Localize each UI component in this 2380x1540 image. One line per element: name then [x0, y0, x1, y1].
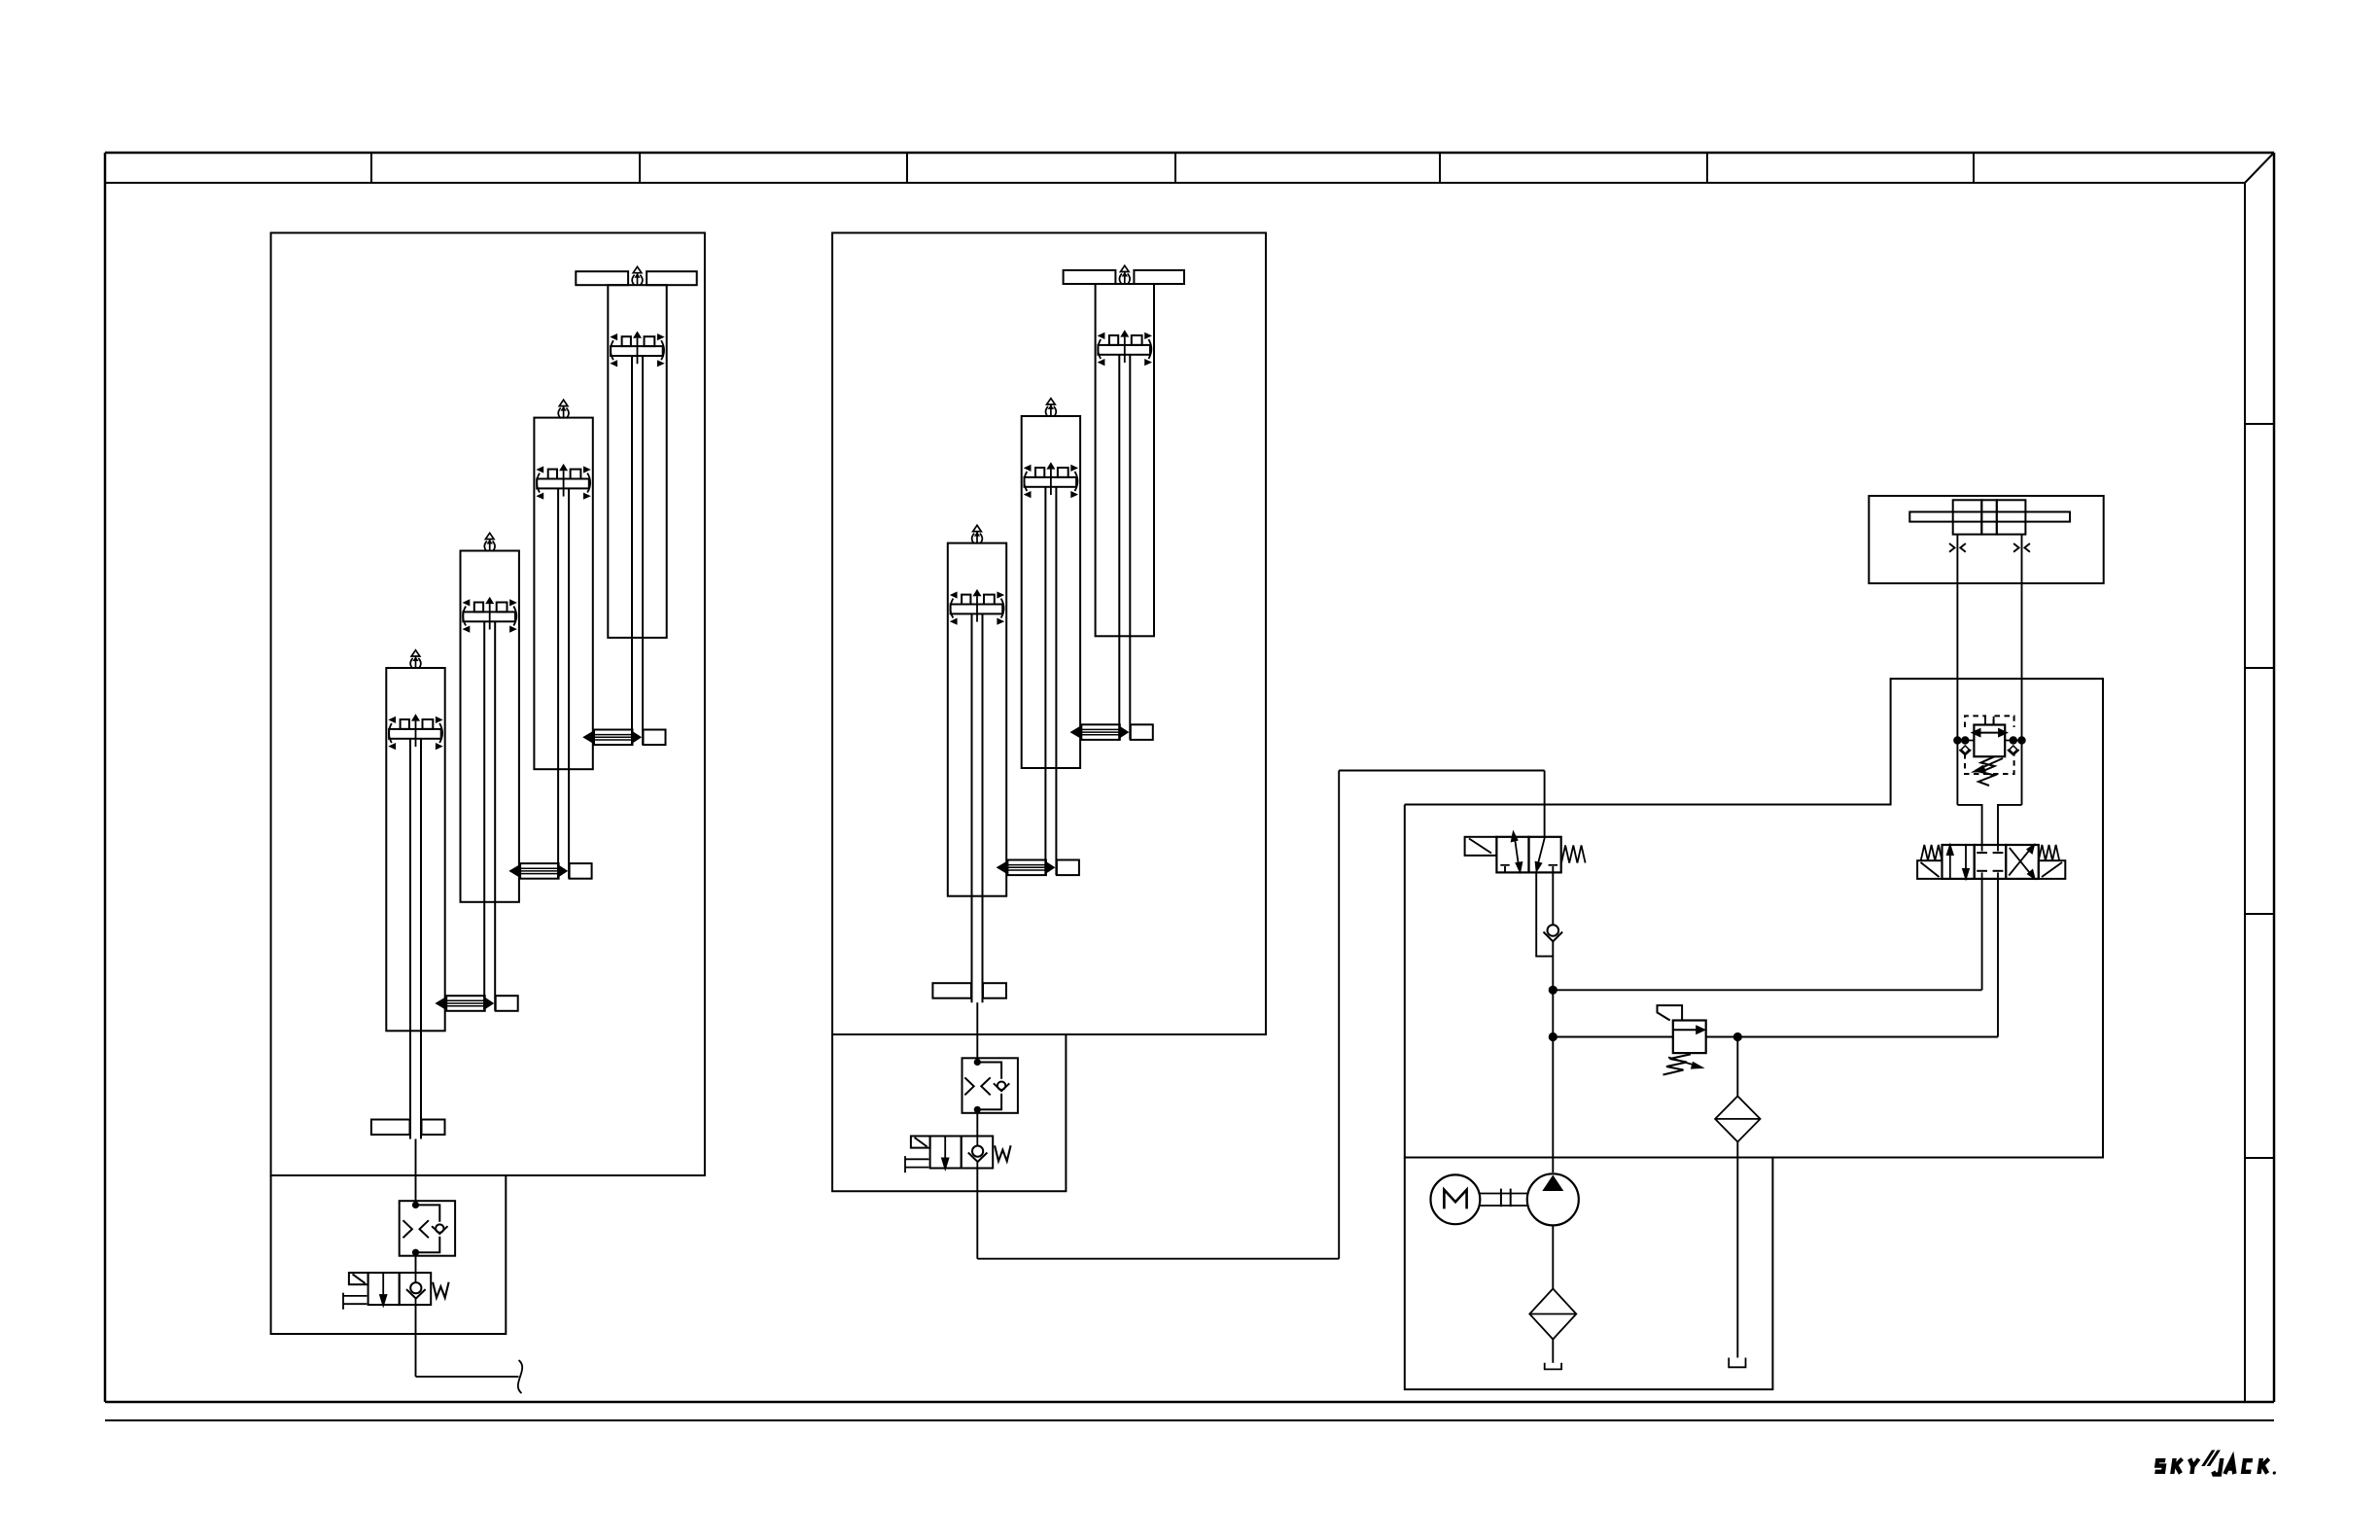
counterbalance valve pilot enclosure (dashed) — [1965, 716, 2014, 774]
title strip bottom edge — [105, 182, 2245, 184]
DV1 right return spring — [2039, 845, 2059, 860]
cylinder CYL3 piston rod — [558, 488, 569, 878]
left group wire (FC1 to SV1) — [415, 1256, 417, 1273]
left solenoid dump valve SV1 solenoid actuator — [349, 1273, 368, 1284]
tank return line from DV1 — [1737, 1036, 1998, 1038]
steering valve B-port jog — [1998, 805, 2022, 845]
left solenoid dump valve SV1 label W — [433, 1282, 449, 1298]
left group wire (SV1 down) — [415, 1305, 417, 1377]
cylinder CYL4 piston rod — [632, 356, 643, 745]
drawing border bottom edge — [105, 1401, 2274, 1404]
middle group wire (SV2 down) — [976, 1169, 978, 1259]
cylinder CYL2 piston rod — [484, 621, 495, 1011]
cylinder CYL5 breather vent — [972, 525, 983, 543]
left flow-control valve FC1 orifice restrictor — [403, 1220, 429, 1238]
title strip divider 1 — [370, 153, 372, 183]
cylinder CYL5 piston rod — [972, 613, 983, 1002]
left flow-control valve FC1 inlet junction — [412, 1202, 419, 1208]
title strip divider 6 — [1706, 153, 1708, 183]
middle flow-control valve FC2 inlet junction — [974, 1059, 981, 1066]
supply wire to lowering valve — [1339, 770, 1544, 772]
middle flow-control valve FC2 body — [962, 1058, 1018, 1113]
middle solenoid dump valve SV2 label W — [995, 1145, 1011, 1161]
cylinder CYL1 breather vent — [410, 650, 421, 669]
cylinder CYL3 breather vent — [558, 400, 569, 418]
middle solenoid dump valve SV2 spring return — [905, 1156, 928, 1172]
RV1 adjustment arrow — [1668, 1058, 1705, 1069]
steering cylinder barrel — [1953, 500, 2026, 534]
cylinder CYL6 piston with seals — [1024, 462, 1078, 498]
cylinder CYL2 rod-end coupling with travel arrow — [435, 996, 517, 1011]
middle flow-control valve FC2 outlet junction — [974, 1106, 981, 1113]
middle solenoid dump valve SV2 solenoid actuator — [911, 1137, 930, 1148]
hydraulic reservoir enclosure — [1405, 1158, 1773, 1390]
steering valve A-port jog — [1957, 805, 1981, 845]
DV1 left solenoid — [1917, 860, 1942, 879]
pump check valve CV1 — [1544, 925, 1563, 941]
suction strainer S1 — [1529, 1289, 1576, 1340]
cylinder CYL5 piston with seals — [950, 589, 1004, 625]
middle holding-valve enclosure — [832, 1034, 1066, 1191]
steering cylinder left port line — [1956, 535, 1958, 805]
left group supply wire (rod plate to holding valve) — [415, 1139, 417, 1202]
counterbalance valve body — [1974, 725, 2005, 757]
return line into tank — [1736, 1142, 1738, 1358]
LV1 rest position blocked port — [1549, 865, 1557, 873]
RV1 flow arrow — [1673, 1025, 1706, 1034]
shaft coupling — [1501, 1189, 1511, 1207]
SKYJACK logo — [2154, 1451, 2279, 1475]
cylinder CYL4 top mounting plate — [576, 271, 696, 285]
middle flow-control valve FC2 orifice restrictor — [964, 1077, 990, 1095]
right border zone tick 2 — [2245, 667, 2274, 669]
steering valve-section boundary — [1405, 679, 2103, 1157]
middle solenoid dump valve SV2 envelope — [930, 1137, 994, 1169]
pressure line to DV1 — [1553, 989, 1981, 991]
cylinder CYL1 rod-end base plate — [371, 1120, 445, 1136]
counterbalance port junction A1 — [1953, 736, 1961, 744]
title strip divider 4 — [1174, 153, 1176, 183]
middle flow-control valve FC2 bypass check valve — [977, 1063, 1009, 1110]
cylinder CYL7 piston with seals — [1098, 330, 1152, 366]
right border zone tick 3 — [2245, 913, 2274, 915]
LV1 return spring — [1561, 846, 1586, 863]
counterbalance right port wire — [2005, 740, 2021, 742]
right border zone tick 1 — [2245, 423, 2274, 425]
drawing border top-right chamfer — [2245, 153, 2274, 183]
system relief valve RV1 body — [1673, 1021, 1706, 1054]
counterbalance spring — [1978, 756, 1995, 786]
drawing border outer right edge — [2273, 153, 2276, 1402]
drawing border left edge — [104, 153, 107, 1402]
cylinder CYL4 barrel — [608, 285, 666, 638]
cylinder CYL1 piston rod — [410, 739, 421, 1139]
left holding-valve enclosure — [271, 1175, 507, 1334]
left port orifice — [1949, 543, 1966, 552]
right port orifice — [2013, 543, 2030, 552]
tank line junction — [1733, 1032, 1742, 1041]
title strip divider 5 — [1439, 153, 1441, 183]
steering directional valve DV1 envelope — [1942, 845, 2039, 879]
drawing border inner right edge — [2244, 183, 2246, 1402]
cylinder CYL1 barrel — [386, 668, 444, 1031]
DV1 P-port riser — [1981, 879, 1983, 990]
left group wire (horizontal run to line break) — [416, 1376, 519, 1378]
DV1 right position crossed arrows — [2009, 843, 2036, 881]
middle solenoid dump valve SV2 closed position arrow — [941, 1137, 950, 1172]
cylinder CYL6 rod-end coupling with travel arrow — [997, 860, 1079, 876]
motor label M — [1444, 1190, 1466, 1209]
title strip top edge — [105, 152, 2274, 155]
LV1 outlet wire — [1552, 872, 1554, 924]
motor-pump shaft — [1480, 1194, 1527, 1207]
pump suction line — [1552, 1225, 1554, 1288]
steering cylinder piston — [1981, 500, 1997, 534]
DV1 left return spring — [1921, 845, 1942, 860]
DV1 right solenoid — [2039, 860, 2066, 879]
middle group wire (FC2 to SV2) — [976, 1113, 978, 1137]
middle solenoid dump valve SV2 check position — [968, 1137, 988, 1169]
bottom rule line — [105, 1419, 2274, 1421]
counterbalance port junction B1 — [2010, 736, 2017, 744]
cylinder CYL7 piston rod — [1119, 355, 1130, 740]
left solenoid dump valve SV1 envelope — [368, 1273, 432, 1305]
left solenoid dump valve SV1 closed position arrow — [379, 1273, 388, 1309]
middle group supply wire (rod plate to holding valve) — [976, 1002, 978, 1058]
cylinder CYL6 barrel — [1022, 416, 1080, 768]
LV1 rest position path — [1535, 837, 1545, 874]
relief feed wire — [1553, 1036, 1673, 1038]
LV1 energized position blocked port — [1500, 865, 1509, 873]
right border zone tick 4 — [2245, 1157, 2274, 1159]
counterbalance adjustment arrow — [1971, 758, 2003, 773]
cylinder CYL2 breather vent — [484, 533, 495, 551]
cylinder CYL5 rod-end base plate — [932, 983, 1006, 997]
left group line-break symbol — [518, 1360, 522, 1393]
pressure line junction — [1549, 986, 1557, 995]
left solenoid dump valve SV1 spring return — [343, 1293, 367, 1310]
return filter feed — [1736, 1037, 1738, 1097]
RV1 pilot flag — [1658, 1005, 1683, 1020]
return filter F1 — [1715, 1096, 1760, 1141]
cylinder CYL5 barrel — [948, 543, 1006, 896]
relief line junction — [1549, 1032, 1557, 1041]
left solenoid dump valve SV1 check position — [406, 1273, 426, 1305]
RV1 outlet wire — [1706, 1036, 1738, 1038]
RV1 spring — [1663, 1054, 1691, 1074]
title strip divider 2 — [639, 153, 641, 183]
cylinder CYL3 piston with seals — [536, 464, 590, 500]
lowering valve LV1 envelope — [1496, 837, 1560, 873]
electric motor M1 — [1431, 1174, 1481, 1224]
DV1 T-port riser — [1997, 879, 1999, 1037]
cylinder CYL6 piston rod — [1045, 487, 1056, 875]
left flow-control valve FC1 bypass check valve — [416, 1205, 448, 1252]
lowering valve inlet wire — [1544, 771, 1546, 837]
DV1 centre position blocked ports — [1977, 845, 2003, 879]
cylinder CYL4 rod-end coupling with travel arrow — [582, 730, 665, 746]
middle lift cylinder group enclosure — [832, 233, 1266, 1035]
middle group supply wire horizontal run — [977, 1258, 1339, 1260]
counterbalance left port wire — [1957, 740, 1974, 742]
counterbalance right pilot check — [2008, 746, 2019, 755]
left lift cylinder group enclosure — [271, 233, 705, 1176]
cylinder CYL2 barrel — [461, 551, 519, 902]
suction pipe drop — [1552, 1340, 1554, 1363]
cylinder CYL7 breather vent — [1119, 265, 1130, 284]
cylinder CYL6 breather vent — [1046, 399, 1057, 417]
cylinder CYL1 piston with seals — [388, 714, 442, 750]
suction pipe inlet cup — [1545, 1363, 1561, 1370]
steering cylinder double-ended rod — [1909, 512, 2070, 522]
hydraulic pump P1 — [1527, 1173, 1579, 1225]
cylinder CYL3 rod-end coupling with travel arrow — [508, 863, 591, 879]
middle group supply wire riser — [1338, 771, 1340, 1259]
cylinder CYL7 top mounting plate — [1064, 270, 1184, 284]
cylinder CYL4 breather vent — [632, 266, 643, 285]
counterbalance valve flow arrow — [1971, 728, 2009, 738]
counterbalance port junction B2 — [2017, 736, 2025, 744]
DV1 left position parallel arrows — [1946, 843, 1971, 882]
left flow-control valve FC1 outlet junction — [412, 1249, 419, 1256]
cylinder CYL2 piston with seals — [463, 597, 517, 633]
cylinder CYL4 piston with seals — [610, 332, 664, 367]
cylinder CYL7 barrel — [1096, 284, 1154, 636]
LV1 solenoid — [1465, 837, 1497, 856]
counterbalance port junction A2 — [1961, 736, 1969, 744]
pump flow triangle — [1542, 1175, 1563, 1192]
title strip divider 3 — [906, 153, 908, 183]
counterbalance valve pilot stubs — [1985, 717, 1994, 725]
LV1 bypass wire — [1536, 872, 1553, 956]
counterbalance left pilot check — [1959, 746, 1971, 755]
steering cylinder right port line — [2021, 535, 2023, 805]
cylinder CYL3 barrel — [534, 418, 592, 770]
title strip divider 7 — [1973, 153, 1975, 183]
LV1 energized position arrow — [1511, 830, 1523, 875]
left flow-control valve FC1 body — [400, 1201, 455, 1256]
steering cylinder enclosure — [1869, 496, 2103, 583]
return pipe outlet cup — [1729, 1358, 1745, 1368]
cylinder CYL7 rod-end coupling with travel arrow — [1070, 724, 1153, 740]
pump pressure riser — [1552, 941, 1554, 1172]
